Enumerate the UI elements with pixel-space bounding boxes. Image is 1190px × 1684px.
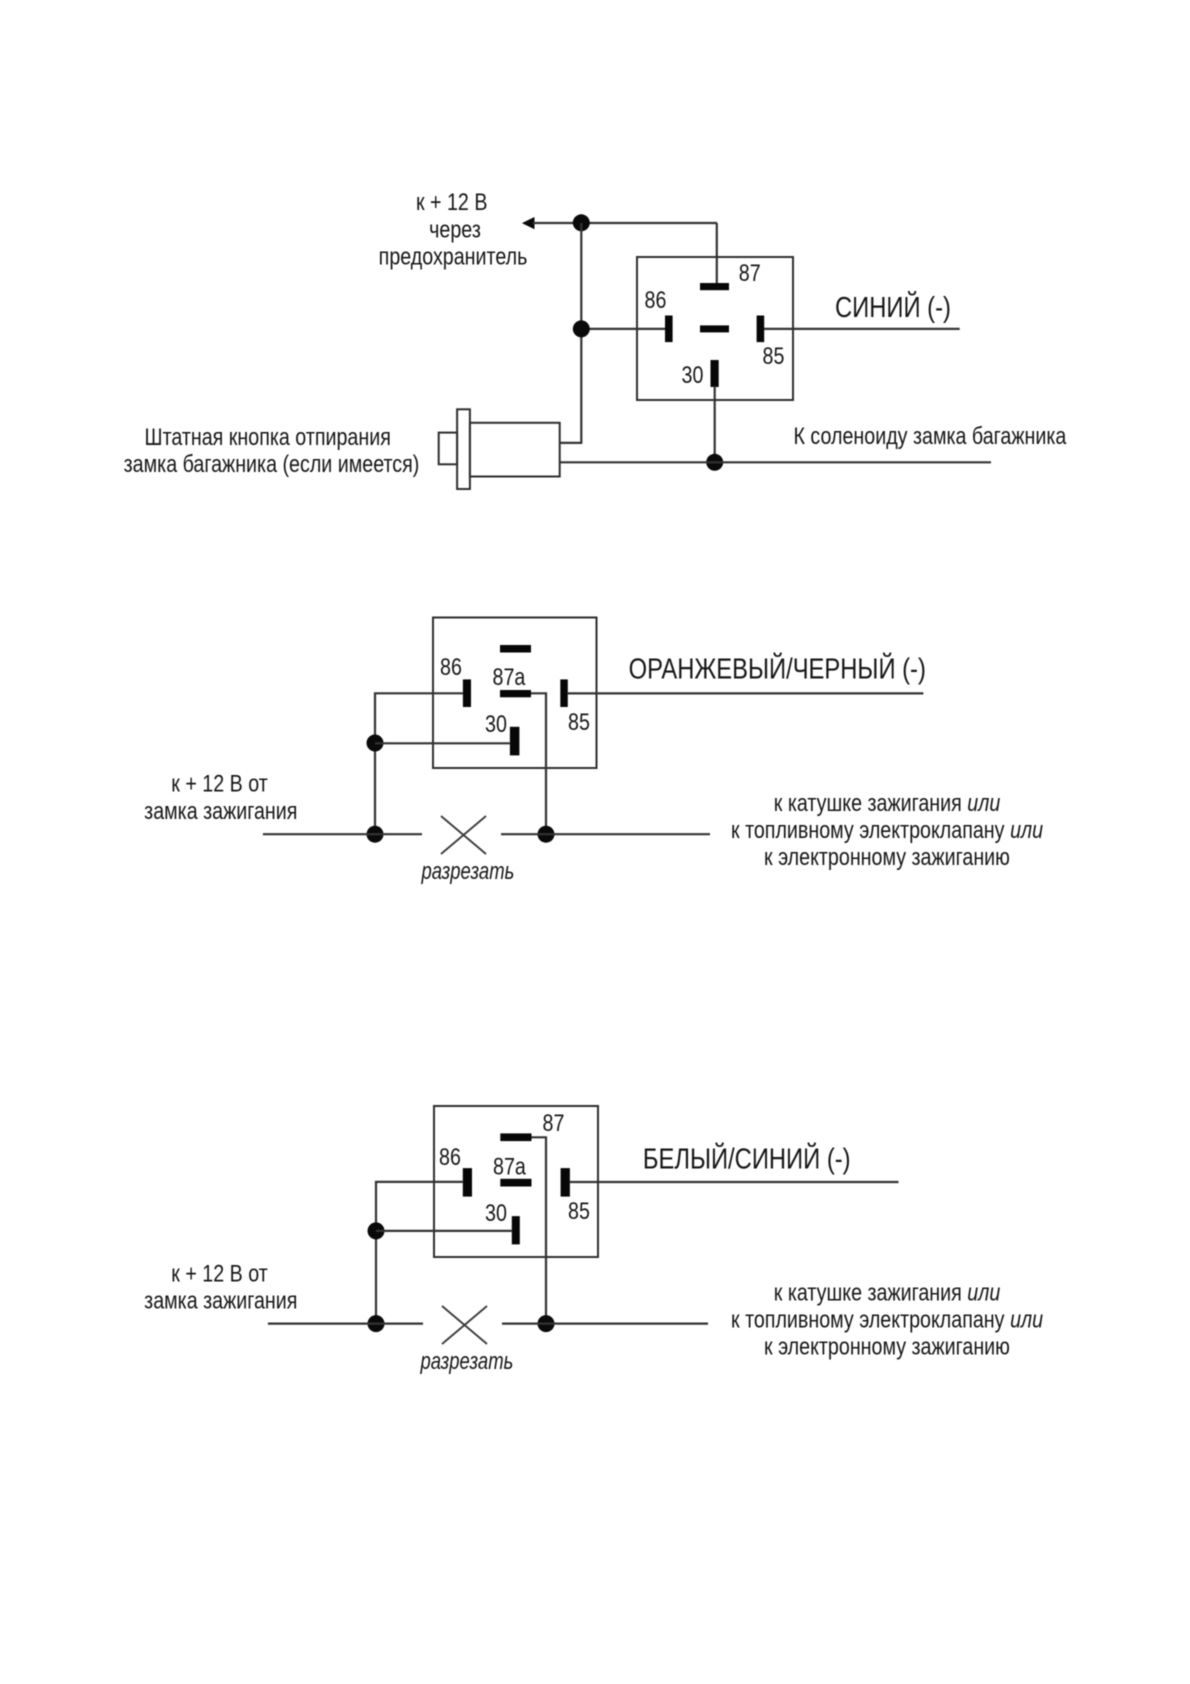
relay K2 pin 87a bar <box>500 690 531 697</box>
svg-text:87: 87 <box>739 259 761 286</box>
wire to ignition coil (right segment) <box>501 833 710 835</box>
wire pin 86 to left column down to cut wire <box>376 1182 463 1324</box>
svg-text:87: 87 <box>543 1109 565 1136</box>
label к + 12 В от замка зажигания <box>144 770 297 825</box>
wire pin 30 down <box>714 386 716 462</box>
relay K2 pin 30 bar <box>510 727 520 756</box>
svg-text:30: 30 <box>485 1199 507 1226</box>
svg-text:30: 30 <box>485 710 507 737</box>
svg-text:86: 86 <box>439 1143 461 1170</box>
svg-text:30: 30 <box>682 361 704 388</box>
arrow to +12V supply <box>522 217 535 229</box>
svg-text:к топливному электроклапану: к топливному электроклапану <box>731 816 1005 843</box>
relay K3 box <box>434 1106 598 1257</box>
relay K2 pin 86 bar <box>463 679 471 707</box>
svg-text:86: 86 <box>440 653 462 680</box>
svg-text:к электронному зажиганию: к электронному зажиганию <box>764 1333 1010 1360</box>
wire pin 30 to left column <box>375 742 510 744</box>
svg-text:87a: 87a <box>493 1153 527 1180</box>
wire ignition +12V (left segment) <box>263 833 422 835</box>
switch S1 flange <box>457 409 470 489</box>
label к катушке зажигания или ... (3 lines) <box>731 789 1043 870</box>
label к + 12 В от замка зажигания <box>144 1259 297 1314</box>
svg-text:86: 86 <box>645 286 667 313</box>
relay K1 pin 87 bar <box>700 283 729 290</box>
svg-text:БЕЛЫЙ/СИНИЙ (-): БЕЛЫЙ/СИНИЙ (-) <box>643 1142 851 1175</box>
svg-text:замка зажигания: замка зажигания <box>144 797 297 824</box>
wire pin 87a right end down to cut wire <box>531 693 546 834</box>
relay K1 pin 85 bar <box>757 316 765 343</box>
node: junction dot on left column <box>573 320 590 337</box>
switch S1 plunger cap <box>439 433 457 465</box>
relay K3 pin 85 bar <box>561 1168 570 1197</box>
svg-text:к + 12 В: к + 12 В <box>416 188 487 215</box>
wire pin 30 to left column <box>376 1230 512 1232</box>
node: junction dot cut-wire right <box>538 1315 555 1332</box>
svg-text:85: 85 <box>763 342 785 369</box>
wire left column (junction to switch) <box>580 223 582 443</box>
svg-text:к катушке зажигания: к катушке зажигания <box>774 789 962 816</box>
svg-text:85: 85 <box>568 1197 590 1224</box>
svg-text:к катушке зажигания: к катушке зажигания <box>774 1279 962 1306</box>
svg-text:к электронному зажиганию: к электронному зажиганию <box>764 843 1010 870</box>
svg-text:или: или <box>967 789 1000 816</box>
svg-text:предохранитель: предохранитель <box>379 243 528 270</box>
relay K1 box <box>637 257 793 400</box>
svg-text:разрезать: разрезать <box>420 1348 514 1375</box>
svg-text:К соленоиду замка багажника: К соленоиду замка багажника <box>794 422 1068 449</box>
wire pin 85 to right (blue wire) <box>764 328 960 330</box>
node: junction dot cut-wire left <box>368 1315 385 1332</box>
svg-text:Штатная кнопка отпирания: Штатная кнопка отпирания <box>145 423 391 450</box>
label: к + 12 В через предохранитель <box>379 188 528 270</box>
wire to trunk solenoid <box>560 461 991 463</box>
label к катушке зажигания или ... (3 lines) <box>731 1279 1043 1360</box>
svg-text:к + 12 В от: к + 12 В от <box>171 1259 267 1286</box>
wire +12V horizontal <box>533 222 717 224</box>
svg-text:или: или <box>1010 816 1043 843</box>
relay K3 pin 87a bar <box>500 1179 531 1187</box>
svg-text:к топливному электроклапану: к топливному электроклапану <box>731 1306 1005 1333</box>
svg-text:ОРАНЖЕВЫЙ/ЧЕРНЫЙ (-): ОРАНЖЕВЫЙ/ЧЕРНЫЙ (-) <box>629 652 926 685</box>
wire pin 86 to left column <box>581 328 665 330</box>
label Штатная кнопка отпирания замка багажника <box>124 423 420 477</box>
svg-text:или: или <box>967 1279 1000 1306</box>
relay K3 pin 86 bar <box>463 1168 472 1197</box>
relay K2 box <box>433 618 597 769</box>
wire vertical into relay pin 87 <box>716 223 718 285</box>
svg-text:через: через <box>429 215 481 242</box>
svg-text:85: 85 <box>568 708 590 735</box>
svg-text:разрезать: разрезать <box>421 858 515 885</box>
relay K2 pin 85 bar <box>560 679 568 707</box>
svg-text:замка зажигания: замка зажигания <box>144 1287 297 1314</box>
wire pin 86 to left column down to cut wire <box>375 693 463 834</box>
svg-text:87a: 87a <box>493 663 527 690</box>
relay K2 pin 87 bar <box>500 645 531 653</box>
node: junction dot on +12V wire <box>573 214 590 231</box>
wire to ignition coil (right segment) <box>502 1322 708 1324</box>
svg-text:или: или <box>1010 1306 1043 1333</box>
svg-text:СИНИЙ (-): СИНИЙ (-) <box>835 291 951 324</box>
node: junction dot on left column <box>367 735 384 752</box>
svg-text:замка багажника (если имеется): замка багажника (если имеется) <box>124 450 420 477</box>
wire pin 85 to right (white/blue wire) <box>570 1181 899 1183</box>
svg-text:к + 12 В от: к + 12 В от <box>171 770 267 797</box>
wire pin 85 to right (orange/black wire) <box>568 692 924 694</box>
relay K1 common bar <box>700 325 729 332</box>
relay K1 pin 30 bar <box>711 360 719 387</box>
switch S1 body <box>470 423 560 477</box>
cut mark X <box>442 1306 487 1344</box>
relay K3 pin 30 bar <box>512 1216 520 1244</box>
wire switch to left column <box>560 442 583 444</box>
relay K1 pin 86 bar <box>665 316 673 343</box>
wire ignition +12V (left segment) <box>268 1322 423 1324</box>
wire pin 87 right end down to cut wire <box>532 1137 547 1323</box>
node: junction dot on solenoid wire <box>706 454 723 471</box>
node: junction dot cut-wire right <box>538 826 555 843</box>
node: junction dot on left column <box>368 1222 385 1239</box>
cut mark X <box>441 816 486 854</box>
node: junction dot cut-wire left <box>367 826 384 843</box>
relay K3 pin 87 bar <box>500 1133 531 1141</box>
